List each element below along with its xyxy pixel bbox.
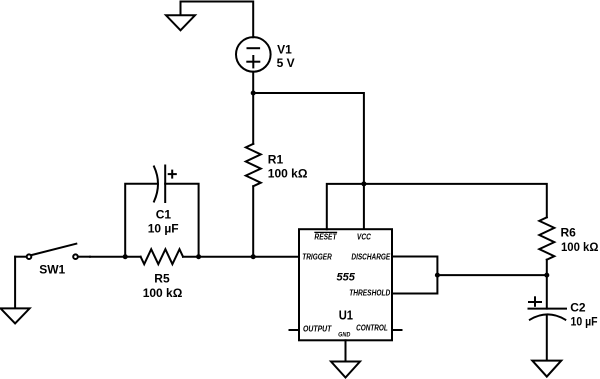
- node VCC-RESET junction: [361, 181, 366, 186]
- svg-text:OUTPUT: OUTPUT: [303, 324, 333, 334]
- wire GND pin down: [345, 340, 347, 361]
- svg-text:5 V: 5 V: [277, 56, 295, 70]
- wire node down to R1: [252, 93, 254, 144]
- svg-text:10 µF: 10 µF: [571, 316, 598, 329]
- ground U1: [331, 362, 360, 378]
- svg-text:TRIGGER: TRIGGER: [302, 252, 332, 262]
- resistor R5: [141, 249, 183, 264]
- node rail-C1 left junction: [123, 254, 128, 259]
- svg-text:R1: R1: [268, 153, 284, 167]
- wire discharge-threshold loop: [392, 257, 437, 294]
- svg-text:C2: C2: [570, 301, 586, 315]
- svg-text:V1: V1: [277, 43, 292, 57]
- wire C1 branch left: [125, 184, 157, 257]
- capacitor C2: [529, 297, 567, 319]
- wire R1 to rail: [252, 186, 254, 257]
- resistor R1: [246, 144, 261, 186]
- node discharge-threshold junction: [435, 273, 440, 278]
- ground top-left: [166, 2, 195, 31]
- switch SW1: [15, 244, 90, 259]
- svg-text:U1: U1: [339, 308, 354, 323]
- IC U1 555 box: [299, 229, 392, 340]
- wire top from ground to V1: [181, 2, 254, 38]
- node R6-C2 junction: [544, 273, 549, 278]
- svg-text:VCC: VCC: [357, 232, 372, 242]
- wire C1 branch right: [165, 184, 198, 257]
- wire junction to C2: [546, 275, 548, 309]
- svg-text:555: 555: [337, 271, 356, 283]
- svg-text:C1: C1: [156, 208, 172, 222]
- svg-text:SW1: SW1: [39, 263, 65, 277]
- svg-text:R6: R6: [561, 226, 577, 240]
- svg-text:GND: GND: [338, 332, 351, 338]
- node V+ junction: [251, 91, 256, 96]
- svg-text:DISCHARGE: DISCHARGE: [351, 252, 391, 262]
- svg-text:100 kΩ: 100 kΩ: [561, 241, 598, 254]
- svg-text:CONTROL: CONTROL: [356, 323, 388, 333]
- svg-text:100 kΩ: 100 kΩ: [143, 286, 183, 300]
- svg-text:10 µF: 10 µF: [148, 222, 179, 236]
- wire OUTPUT stub: [290, 329, 300, 331]
- ground C2: [532, 361, 561, 377]
- voltage source V1: [236, 37, 271, 72]
- wire node to VCC column: [253, 93, 364, 229]
- wire rail right: [183, 256, 299, 258]
- svg-text:R5: R5: [154, 272, 170, 286]
- ground switch: [1, 257, 30, 324]
- node rail-R1 junction: [251, 254, 256, 259]
- wire C2 to ground: [546, 315, 548, 361]
- svg-text:THRESHOLD: THRESHOLD: [349, 288, 391, 298]
- wire CONTROL stub: [392, 329, 402, 331]
- wire V1 bottom to node: [252, 72, 254, 93]
- svg-text:100 kΩ: 100 kΩ: [268, 167, 308, 181]
- capacitor C1: [154, 166, 176, 203]
- overline RESET: [315, 231, 337, 233]
- wire rail left: [90, 256, 141, 258]
- wire RESET up and over to R6: [327, 184, 547, 229]
- wire R6 to C2 node: [546, 260, 548, 275]
- svg-text:RESET: RESET: [314, 232, 337, 242]
- node rail-C1 right junction: [196, 254, 201, 259]
- wire junction to C2 node: [437, 274, 546, 276]
- resistor R6: [539, 217, 554, 259]
